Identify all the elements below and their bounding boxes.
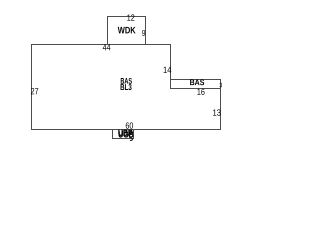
area outline WDK deck bbox=[108, 17, 146, 45]
stray glyph tail below bottom box bbox=[130, 138, 133, 141]
svg-text:14: 14 bbox=[163, 64, 172, 75]
area outline main building BL3 bbox=[32, 45, 221, 130]
area outline right BAS extension bbox=[171, 80, 221, 89]
svg-text:44: 44 bbox=[103, 43, 111, 53]
svg-text:BAS: BAS bbox=[190, 78, 205, 88]
svg-text:27: 27 bbox=[31, 86, 39, 96]
svg-text:3: 3 bbox=[219, 83, 223, 90]
area outline bottom porch box bbox=[113, 130, 134, 139]
svg-text:WDK: WDK bbox=[118, 25, 137, 36]
svg-text:BL3: BL3 bbox=[120, 82, 132, 92]
svg-text:9: 9 bbox=[142, 28, 146, 38]
svg-text:16: 16 bbox=[197, 87, 205, 97]
svg-text:13: 13 bbox=[213, 107, 222, 118]
svg-text:12: 12 bbox=[127, 13, 135, 23]
